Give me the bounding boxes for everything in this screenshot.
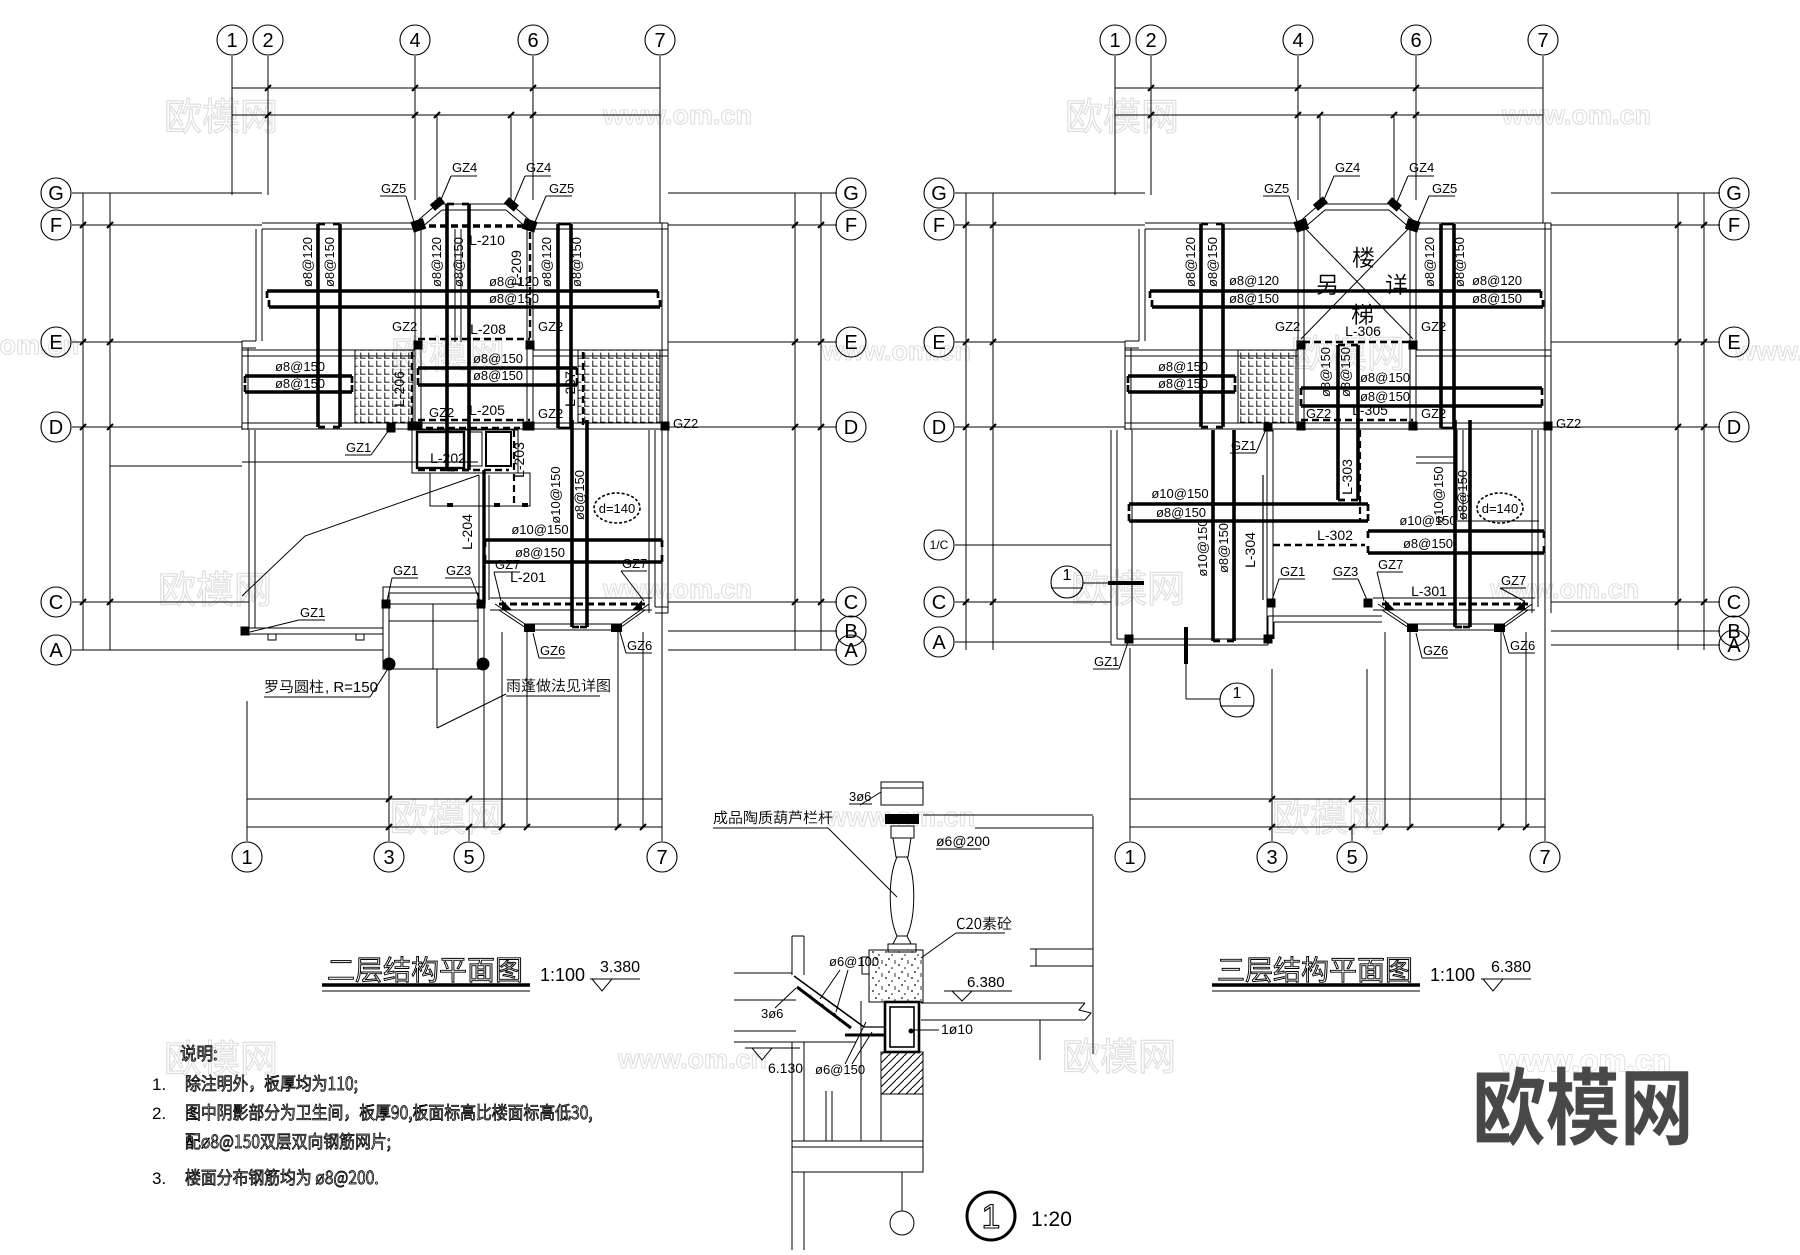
svg-text:ø8@150: ø8@150 bbox=[1318, 347, 1333, 397]
axis circle 3 (bottom) bbox=[1257, 842, 1287, 872]
leader from porch bbox=[436, 669, 438, 728]
bottom wall step bbox=[1267, 616, 1269, 645]
axis circle D (right) bbox=[836, 412, 866, 442]
beam rebar V4 center ø8@150 bbox=[1356, 345, 1360, 500]
interior wall E-row west bbox=[1125, 349, 1298, 351]
axis circle C (right) bbox=[1719, 587, 1749, 617]
canopy corner column b bbox=[632, 600, 642, 610]
bottom extension line 1 bbox=[1129, 701, 1131, 841]
svg-text:GZ2: GZ2 bbox=[1556, 416, 1581, 431]
bay wall top bbox=[437, 203, 511, 205]
axis line 1 (top) bbox=[1114, 56, 1116, 195]
axis circle G (right) bbox=[1719, 178, 1749, 208]
left wall lower bbox=[1110, 430, 1112, 645]
row line F (right) bbox=[668, 224, 837, 226]
baluster base bbox=[888, 944, 916, 952]
row line A (left) bbox=[955, 641, 1111, 643]
svg-text:GZ6: GZ6 bbox=[627, 638, 652, 653]
leader to roman column bbox=[370, 667, 389, 697]
row line G (right) bbox=[1551, 192, 1720, 194]
bottom extension line c bbox=[526, 632, 528, 827]
svg-text:ø8@150: ø8@150 bbox=[473, 351, 523, 366]
column GZ4 right bbox=[504, 197, 519, 211]
top dimension line 1 bbox=[1115, 87, 1543, 89]
section cut 1 left: cut line bbox=[1083, 582, 1108, 584]
beam L-207 vertical bbox=[582, 352, 584, 426]
axis circle G (right) bbox=[836, 178, 866, 208]
top dimension line 2 bbox=[232, 114, 660, 116]
canopy edge lines bbox=[1373, 597, 1535, 599]
hatched wall section bbox=[881, 1052, 923, 1094]
beam L-210 bbox=[418, 224, 530, 228]
rail top lines bbox=[923, 814, 1093, 816]
svg-text:GZ4: GZ4 bbox=[1409, 160, 1434, 175]
row line C (right) bbox=[668, 601, 837, 603]
column GZ1 c bbox=[1125, 635, 1134, 644]
small circle bbox=[890, 1211, 914, 1235]
svg-text:D: D bbox=[932, 417, 946, 439]
canopy slant right bbox=[1500, 610, 1528, 630]
watermark layer (light gray) bbox=[0, 98, 1800, 1075]
right wall bbox=[1544, 223, 1546, 613]
bay wall top bbox=[1320, 203, 1394, 205]
canopy corner column d bbox=[611, 624, 622, 632]
title 二层结构平面图 (hollow) bbox=[329, 957, 521, 983]
bottom extension line 5 bbox=[1351, 827, 1353, 841]
svg-text:GZ2: GZ2 bbox=[392, 319, 417, 334]
row line E (right) bbox=[668, 341, 837, 343]
dimension ticks (bottom) bbox=[386, 796, 392, 802]
beam section bbox=[885, 1002, 919, 1052]
column GZ2 a bbox=[414, 341, 423, 350]
axis line 4 (top) bbox=[414, 56, 416, 200]
watermark 欧模网 (light) bbox=[161, 571, 269, 606]
column at L-202 left bbox=[408, 422, 417, 431]
row line C (left) bbox=[72, 601, 249, 603]
svg-text:ø8@150: ø8@150 bbox=[1338, 347, 1353, 397]
right dim vertical 1 bbox=[1677, 193, 1679, 650]
svg-text:GZ7: GZ7 bbox=[1378, 557, 1403, 572]
svg-text:F: F bbox=[845, 215, 857, 237]
hatched area (bathroom) right bbox=[578, 350, 660, 423]
beam rebar V7 lower right ø10@150 bbox=[1453, 420, 1457, 627]
left wall lower bbox=[791, 1042, 793, 1141]
svg-text:GZ5: GZ5 bbox=[1264, 181, 1289, 196]
title 三层结构平面图 (hollow) bbox=[1219, 957, 1411, 983]
axis circle 7 (top) bbox=[1528, 25, 1558, 55]
dimension ticks (bottom) bbox=[1269, 796, 1275, 802]
svg-text:2.: 2. bbox=[152, 1104, 166, 1123]
column GZ2 c bbox=[1297, 422, 1306, 431]
column GZ1 b bbox=[1267, 599, 1276, 608]
column GZ4 right bbox=[1387, 197, 1402, 211]
svg-text:ø8@150: ø8@150 bbox=[1360, 370, 1410, 385]
section cut 1 left: circle bbox=[1051, 566, 1083, 598]
axis circle 7 (top) bbox=[645, 25, 675, 55]
section cut 1 bottom: leader bbox=[1185, 697, 1187, 699]
porch center divider bbox=[432, 604, 434, 669]
axis line 6 (top) bbox=[532, 56, 534, 200]
beam box L-202 right cell bbox=[486, 432, 511, 466]
svg-text:GZ5: GZ5 bbox=[1432, 181, 1457, 196]
beam rebar V8 lower right ø8@150 bbox=[1468, 420, 1472, 627]
svg-text:5: 5 bbox=[1346, 847, 1357, 869]
beam L-202 top dashed bbox=[415, 427, 520, 429]
svg-text:ø8@150: ø8@150 bbox=[489, 291, 539, 306]
stair cross diagonal 1 bbox=[1301, 224, 1413, 339]
svg-text:1:100: 1:100 bbox=[1430, 965, 1475, 985]
left wall upper bbox=[1138, 229, 1140, 341]
baluster neck lower bbox=[893, 936, 911, 944]
svg-text:www.om.cn: www.om.cn bbox=[617, 1044, 767, 1074]
axis circle A (left) bbox=[924, 627, 954, 657]
tick marks on slab edge bbox=[447, 503, 528, 507]
svg-text:ø6@100: ø6@100 bbox=[829, 954, 879, 969]
svg-text:ø10@150: ø10@150 bbox=[1195, 519, 1210, 576]
svg-text:L-210: L-210 bbox=[469, 232, 505, 248]
dimension ticks (right) bbox=[1675, 222, 1681, 228]
svg-text:C: C bbox=[49, 592, 63, 614]
svg-text:L-303: L-303 bbox=[1339, 459, 1355, 495]
svg-text:www.om.cn: www.om.cn bbox=[602, 574, 752, 604]
svg-text:, R=150: , R=150 bbox=[325, 679, 378, 696]
column GZ1 d bbox=[1264, 635, 1273, 644]
svg-text:GZ1: GZ1 bbox=[1094, 654, 1119, 669]
svg-text:1: 1 bbox=[1109, 30, 1120, 52]
svg-text:ø8@150: ø8@150 bbox=[569, 237, 584, 287]
bay wall right diagonal bbox=[511, 204, 533, 223]
svg-text:3.: 3. bbox=[152, 1169, 166, 1188]
concrete block (speckled) bbox=[869, 950, 923, 1002]
axis circle C (left) bbox=[41, 587, 71, 617]
leader polyline to L-202 slab bbox=[242, 475, 479, 596]
axis circle E (left) bbox=[924, 327, 954, 357]
beam L-304 vertical bbox=[1262, 475, 1264, 600]
bottom extension line a bbox=[483, 669, 485, 827]
floor slab bottom line bbox=[921, 1019, 1085, 1021]
right wall line bbox=[1092, 816, 1094, 1054]
svg-text:1.: 1. bbox=[152, 1075, 166, 1094]
axis line 2 (top) bbox=[1150, 56, 1152, 195]
column at L-202 right bbox=[523, 422, 532, 431]
underline bbox=[506, 695, 600, 697]
svg-text:3: 3 bbox=[383, 847, 394, 869]
beam rebar H1 ø8@120 bbox=[1150, 289, 1541, 293]
axis circle E (left) bbox=[41, 327, 71, 357]
svg-text:1:100: 1:100 bbox=[540, 965, 585, 985]
baluster upper block bbox=[891, 826, 914, 838]
canopy corner column a bbox=[1385, 600, 1395, 610]
svg-text:ø10@150: ø10@150 bbox=[548, 466, 563, 523]
beam rebar H5 ø8@150 center bbox=[418, 366, 577, 370]
svg-text:A: A bbox=[844, 640, 858, 662]
porch inner line bbox=[389, 620, 478, 622]
bottom dimension line 1 bbox=[247, 798, 662, 800]
svg-text:GZ2: GZ2 bbox=[1421, 406, 1446, 421]
svg-text:1: 1 bbox=[1063, 567, 1072, 584]
svg-text:ø10@150: ø10@150 bbox=[1431, 466, 1446, 523]
bottom extension line 5 bbox=[468, 827, 470, 841]
column GZ2 a bbox=[1297, 341, 1306, 350]
beam rebar V west-room a bbox=[1211, 430, 1215, 641]
row line G (left) bbox=[955, 192, 1145, 194]
row line B (right) bbox=[1551, 630, 1720, 632]
bottom extension line 3 bbox=[1271, 669, 1273, 841]
svg-text:ø8@150: ø8@150 bbox=[1216, 523, 1231, 573]
top dimension line 2 bbox=[1115, 114, 1543, 116]
svg-text:D: D bbox=[1727, 417, 1741, 439]
bottom extension line b bbox=[1384, 632, 1386, 827]
axis circle 5 (bottom) bbox=[1337, 842, 1367, 872]
svg-text:L-306: L-306 bbox=[1345, 323, 1381, 339]
title underline thin bbox=[322, 990, 530, 992]
svg-text:GZ1: GZ1 bbox=[1280, 564, 1305, 579]
svg-text:2: 2 bbox=[1145, 30, 1156, 52]
svg-text:GZ3: GZ3 bbox=[446, 563, 471, 578]
beam rebar V3 ø8@120 center bbox=[445, 204, 449, 470]
axis circle 2 (top) bbox=[253, 25, 283, 55]
left wall middle bbox=[1124, 341, 1126, 430]
interior wall left room west bbox=[1131, 430, 1133, 639]
svg-text:2: 2 bbox=[262, 30, 273, 52]
svg-text:ø6@200: ø6@200 bbox=[936, 833, 990, 849]
center line down bbox=[901, 1172, 903, 1211]
column GZ5 right bbox=[522, 218, 538, 232]
bottom extension line e bbox=[642, 632, 644, 827]
interior wall D-row bbox=[1125, 422, 1551, 424]
axis circle 6 (top) bbox=[518, 25, 548, 55]
left plan: second floor structural plan bbox=[41, 25, 866, 872]
beam rebar V2 ø8@150 bbox=[338, 224, 342, 427]
axis circle A (left) bbox=[41, 635, 71, 665]
svg-text:GZ1: GZ1 bbox=[300, 605, 325, 620]
column GZ1 c bbox=[382, 600, 391, 609]
interior wall x415 bbox=[414, 229, 416, 423]
svg-text:1: 1 bbox=[982, 1198, 1001, 1236]
title underline thin bbox=[1212, 990, 1420, 992]
watermark 欧模网 (light) bbox=[167, 1040, 275, 1075]
left wall middle bbox=[241, 341, 243, 430]
row line F (left) bbox=[72, 224, 262, 226]
stairwell wall left bbox=[1297, 229, 1299, 423]
svg-text:D: D bbox=[49, 417, 63, 439]
svg-text:GZ2: GZ2 bbox=[538, 406, 563, 421]
axis circle 1 (bottom) bbox=[232, 842, 262, 872]
extension line bay right bbox=[1393, 115, 1395, 204]
svg-text:E: E bbox=[1727, 332, 1740, 354]
beam rebar V1 ø8@120 bbox=[316, 224, 320, 427]
svg-text:ø8@120: ø8@120 bbox=[429, 237, 444, 287]
axis circle 7 (bottom) bbox=[647, 842, 677, 872]
porch beam line with columns bbox=[383, 603, 484, 605]
svg-text:ø8@120: ø8@120 bbox=[1472, 273, 1522, 288]
beam rebar V2 ø8@150 bbox=[1221, 224, 1225, 427]
beam L-202 bottom dashed bbox=[418, 469, 509, 471]
beam rebar H2 ø8@150 bbox=[269, 305, 660, 309]
axis circle 1 (top) bbox=[217, 25, 247, 55]
canopy slant right bbox=[617, 610, 645, 630]
beam rebar V1 ø8@120 bbox=[1199, 224, 1203, 427]
dimension ticks (top) bbox=[265, 85, 271, 91]
svg-text:ø8@150: ø8@150 bbox=[322, 237, 337, 287]
left dim vertical 2 bbox=[109, 193, 111, 650]
axis line 7 (top) bbox=[659, 56, 661, 223]
svg-text:GZ3: GZ3 bbox=[1333, 564, 1358, 579]
bay wall right diagonal bbox=[1394, 204, 1416, 223]
bottom dimension line 2 bbox=[1130, 826, 1545, 828]
beam L-305 bbox=[1301, 419, 1413, 422]
svg-text:C: C bbox=[932, 592, 946, 614]
svg-text:GZ7: GZ7 bbox=[1501, 573, 1526, 588]
detail drawing: balcony railing section bbox=[713, 782, 1093, 1250]
stair text 梯 bbox=[1352, 304, 1373, 325]
bottom extension line 1 bbox=[246, 701, 248, 841]
svg-text:1ø10: 1ø10 bbox=[941, 1021, 973, 1037]
axis circle D (left) bbox=[41, 412, 71, 442]
svg-text:ø8@150: ø8@150 bbox=[451, 237, 466, 287]
svg-text:www.om.cn: www.om.cn bbox=[0, 330, 79, 360]
column GZ1 a bbox=[387, 424, 396, 433]
dimension ticks (top) bbox=[1148, 85, 1154, 91]
svg-text:GZ1: GZ1 bbox=[346, 440, 371, 455]
svg-text:ø8@120: ø8@120 bbox=[1422, 237, 1437, 287]
beam rebar lower-right ø10@150 bbox=[1368, 529, 1544, 533]
axis circle 1 (top) bbox=[1100, 25, 1130, 55]
column GZ2 e bbox=[661, 422, 670, 431]
svg-text:A: A bbox=[1727, 635, 1741, 657]
svg-text:L-208: L-208 bbox=[470, 321, 506, 337]
column GZ5 right bbox=[1405, 218, 1421, 232]
beam rebar H4 ø8@150 left room bbox=[1128, 390, 1235, 394]
canopy slant left bbox=[499, 610, 529, 630]
extension line bay right bbox=[510, 115, 512, 204]
canopy corner column b bbox=[1515, 600, 1525, 610]
svg-text:7: 7 bbox=[654, 30, 665, 52]
column GZ1 b bbox=[241, 627, 250, 636]
left wall upper bbox=[791, 936, 793, 975]
row line E (right) bbox=[1551, 341, 1720, 343]
svg-text:GZ2: GZ2 bbox=[429, 405, 454, 420]
svg-text:GZ7: GZ7 bbox=[495, 557, 520, 572]
svg-text:ø10@150: ø10@150 bbox=[1151, 486, 1208, 501]
axis circle D (left) bbox=[924, 412, 954, 442]
beam L-208 bbox=[418, 338, 530, 341]
detail bubble 1 bbox=[967, 1192, 1015, 1240]
row line C (left) bbox=[955, 601, 1111, 603]
beam rebar lower-left ø10@150 bbox=[1129, 502, 1368, 506]
beam rebar V4 ø8@150 center bbox=[467, 204, 471, 470]
axis circle F (left) bbox=[41, 210, 71, 240]
top wall east bbox=[1416, 222, 1551, 224]
svg-text:F: F bbox=[50, 215, 62, 237]
svg-text:GZ4: GZ4 bbox=[452, 160, 477, 175]
stair slab slant thick bbox=[794, 976, 864, 1027]
stair text 另 bbox=[1317, 275, 1336, 295]
watermark 欧模网 (light) bbox=[1294, 335, 1402, 370]
bottom extension line c bbox=[1409, 632, 1411, 827]
beam rebar V7 lower right ø10@150 bbox=[570, 420, 574, 627]
interior small rect below center bbox=[430, 473, 530, 506]
beam box L-202 mid cell bbox=[470, 432, 482, 466]
floor slab top line bbox=[921, 1002, 1085, 1004]
axis line 4 (top) bbox=[1297, 56, 1299, 200]
beam rebar V5 upper right ø8@120 bbox=[1439, 224, 1443, 428]
axis circle A (right) bbox=[836, 635, 866, 665]
top dimension line 1 bbox=[232, 87, 660, 89]
column GZ2 b bbox=[526, 341, 535, 350]
wall below hatch bbox=[880, 1094, 882, 1141]
svg-text:d=140: d=140 bbox=[1482, 501, 1519, 516]
label C20素砼 bbox=[957, 916, 1012, 930]
beam box L-202 left cell bbox=[417, 432, 464, 468]
wall notch a bbox=[268, 634, 276, 640]
concrete step bbox=[862, 957, 869, 974]
beam L-306 bbox=[1303, 341, 1411, 344]
svg-text:G: G bbox=[931, 183, 947, 205]
axis circle 2 (top) bbox=[1136, 25, 1166, 55]
logo 欧模网 (dark gray) bbox=[1477, 1066, 1688, 1146]
extension line bay left bbox=[436, 115, 438, 204]
axis circle 1/C (left) bbox=[924, 530, 954, 560]
stair text 楼 bbox=[1353, 247, 1374, 268]
watermark 欧模网 (light) bbox=[394, 336, 502, 371]
axis circle 4 (top) bbox=[400, 25, 430, 55]
bottom dimension line 2 bbox=[247, 826, 662, 828]
column GZ3 a bbox=[477, 600, 486, 609]
ellipse d=140 (duct) bbox=[1477, 493, 1523, 523]
watermark 欧模网 (light) bbox=[1275, 799, 1383, 834]
row line A (right) bbox=[668, 649, 837, 651]
beam rebar H8 ø8@150 lower bbox=[485, 560, 662, 564]
row line D (left) bbox=[72, 426, 242, 428]
svg-text:ø8@150: ø8@150 bbox=[572, 470, 587, 520]
row line D (left) bbox=[955, 426, 1125, 428]
svg-text:L-305: L-305 bbox=[1352, 402, 1388, 418]
column GZ4 left bbox=[1313, 196, 1328, 210]
svg-text:6: 6 bbox=[527, 30, 538, 52]
column GZ2 d bbox=[526, 422, 535, 431]
svg-text:A: A bbox=[49, 640, 63, 662]
row line E (left) bbox=[72, 341, 242, 343]
beam rebar V8 lower right ø8@150 bbox=[585, 420, 589, 627]
row line E (left) bbox=[955, 341, 1125, 343]
row line A (left) bbox=[72, 649, 383, 651]
label 罗马圆柱 R=150 bbox=[265, 679, 323, 693]
axis circle B (right) bbox=[836, 616, 866, 646]
baluster black band bbox=[885, 814, 919, 824]
column GZ5 left bbox=[410, 218, 426, 232]
beam rebar H4 ø8@150 left room bbox=[245, 390, 352, 394]
svg-text:L-301: L-301 bbox=[1411, 583, 1447, 599]
dimension ticks (left) bbox=[963, 222, 969, 228]
svg-text:GZ4: GZ4 bbox=[526, 160, 551, 175]
column GZ4 left bbox=[430, 196, 445, 210]
svg-text:C: C bbox=[1727, 592, 1741, 614]
svg-text:4: 4 bbox=[409, 30, 420, 52]
canopy bottom edge bbox=[529, 629, 617, 631]
interior wall right room bottom bbox=[655, 606, 668, 608]
bottom extension line 7 bbox=[1544, 613, 1546, 841]
bay wall left diagonal bbox=[1298, 204, 1320, 223]
beam rebar V6 upper right ø8@150 bbox=[1452, 224, 1456, 428]
beam rebar V5 upper right ø8@120 bbox=[556, 224, 560, 428]
beam rebar H6 ø8@150 center bbox=[418, 383, 577, 387]
right dim vertical 2 bbox=[1703, 193, 1705, 650]
svg-text:www.om.cn: www.om.cn bbox=[1734, 336, 1800, 366]
svg-text:ø8@120: ø8@120 bbox=[300, 237, 315, 287]
svg-text:ø8@120: ø8@120 bbox=[1183, 237, 1198, 287]
svg-text:3ø6: 3ø6 bbox=[761, 1006, 783, 1021]
